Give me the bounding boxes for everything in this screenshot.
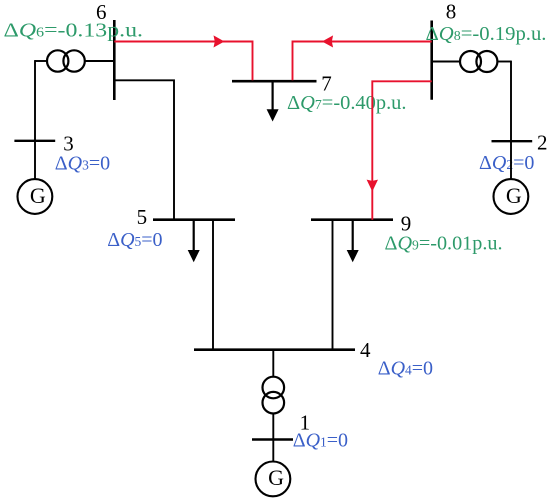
generator G1: [256, 462, 291, 497]
svg-text:ΔQ7=-0.40p.u.: ΔQ7=-0.40p.u.: [287, 92, 407, 114]
wire T8-2 to corner: [497, 61, 511, 63]
svg-text:ΔQ8=-0.19p.u.: ΔQ8=-0.19p.u.: [426, 23, 547, 45]
bus 3: [14, 140, 55, 142]
bus 5: [153, 218, 235, 221]
transformer T8-2: [460, 51, 481, 72]
wire bus6 to bus5: [114, 80, 174, 219]
wire T3-6 to corner: [35, 60, 47, 62]
wire corner down to gen3 through bus 3: [34, 60, 36, 179]
bus 2: [492, 140, 533, 142]
red line 6 to 7: [114, 42, 252, 81]
bus 8: [430, 21, 433, 100]
svg-text:G: G: [268, 465, 284, 490]
bus 7: [232, 80, 317, 83]
red arrow 8 to 7: [322, 35, 333, 47]
svg-text:2: 2: [537, 130, 548, 154]
red line 8 to 9: [372, 81, 431, 219]
load arrow at bus 9: [352, 220, 354, 251]
wire bus6 to T3-6: [85, 60, 115, 62]
red arrow 6 to 7: [214, 35, 225, 47]
svg-text:8: 8: [446, 0, 457, 24]
svg-text:ΔQ6=-0.13p.u.: ΔQ6=-0.13p.u.: [4, 20, 144, 42]
wire bus9 to bus4: [332, 220, 334, 350]
bus 9: [311, 218, 393, 221]
wire bus8 to T8-2: [432, 61, 460, 63]
svg-text:5: 5: [137, 205, 148, 229]
red line 8 to 7: [293, 42, 432, 81]
svg-text:ΔQ9=-0.01p.u.: ΔQ9=-0.01p.u.: [385, 233, 503, 255]
svg-text:G: G: [30, 183, 46, 208]
svg-text:G: G: [506, 183, 522, 208]
red arrow 8 to 9: [367, 180, 378, 192]
generator G2: [494, 179, 529, 214]
bus 6: [113, 20, 116, 100]
wire corner down to gen2 through bus 2: [510, 61, 512, 180]
wire bus5 to bus4: [212, 220, 214, 350]
svg-text:4: 4: [360, 338, 371, 362]
wire T4-1 down to gen1 through bus 1: [272, 414, 274, 462]
transformer T4-1: [263, 377, 285, 399]
load arrow at bus 5: [193, 220, 195, 251]
load arrow at bus 7: [272, 81, 274, 110]
generator G3: [18, 179, 53, 214]
transformer T3-6: [47, 50, 68, 71]
wire bus4 to T4-1: [272, 350, 274, 377]
bus 4: [194, 348, 355, 351]
bus 1: [252, 438, 293, 440]
